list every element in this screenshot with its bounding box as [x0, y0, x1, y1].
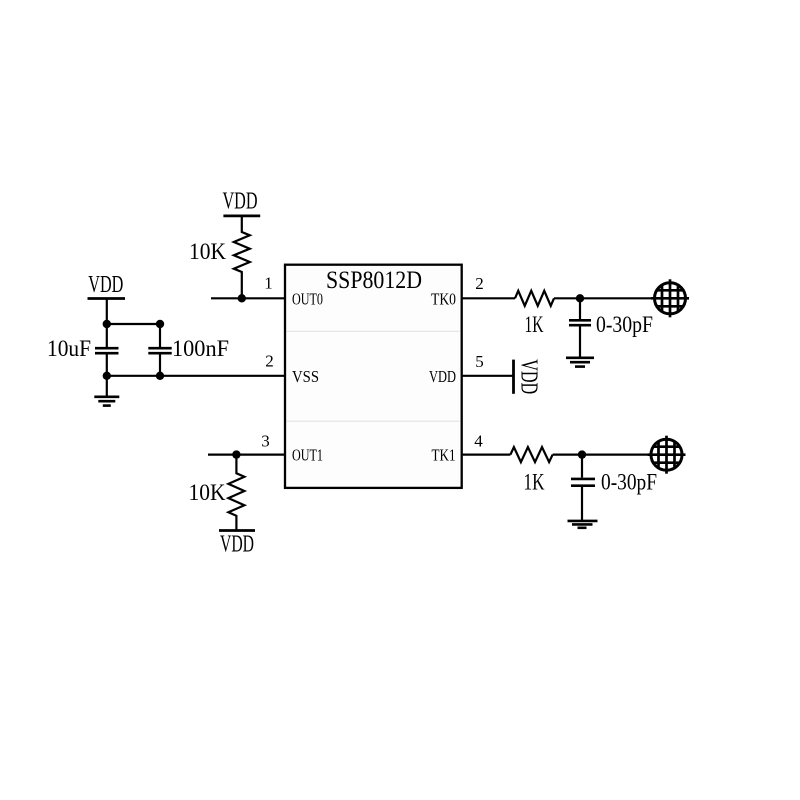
resistor 10K bottom [228, 455, 244, 531]
ground bottom right [568, 521, 598, 528]
junction node TK0 [576, 294, 584, 302]
wire pin4 TK1 right [461, 454, 510, 456]
svg-text:TK1: TK1 [432, 446, 456, 465]
svg-text:10uF: 10uF [47, 336, 91, 361]
power VDD bottom bar [219, 529, 255, 532]
power VDD left bar [88, 297, 126, 300]
wire resistor to touchpad top [554, 297, 655, 299]
capacitor 100nF [148, 324, 171, 376]
junction node pin3 [232, 450, 240, 458]
junction node pin1 [238, 294, 246, 302]
junction node TK1 [578, 450, 586, 458]
IC U1 section divider line 2 [287, 420, 460, 422]
power VDD top bar [223, 214, 260, 217]
junction node cap2 top [156, 320, 164, 328]
svg-text:VDD: VDD [516, 359, 542, 394]
svg-text:TK0: TK0 [431, 290, 456, 309]
wire ground left down [106, 376, 108, 396]
svg-text:4: 4 [474, 432, 483, 451]
resistor 1K bottom [510, 447, 552, 462]
svg-text:3: 3 [261, 432, 270, 451]
svg-text:0-30pF: 0-30pF [601, 469, 657, 494]
capacitor 10uF [95, 324, 119, 376]
IC U1 section divider line 1 [287, 330, 460, 332]
svg-text:5: 5 [475, 352, 484, 371]
junction node cap2 bottom [156, 372, 164, 380]
ground left [94, 397, 119, 406]
wire pin2 TK0 right [461, 297, 515, 299]
wire top rail caps [107, 323, 160, 325]
svg-text:1: 1 [264, 274, 273, 293]
svg-text:0-30pF: 0-30pF [596, 312, 653, 337]
svg-text:1K: 1K [525, 312, 544, 337]
ground top right [566, 358, 594, 367]
svg-text:VDD: VDD [223, 189, 258, 215]
wire VSS rail [107, 375, 285, 377]
svg-text:2: 2 [265, 352, 274, 371]
svg-text:OUT0: OUT0 [292, 290, 323, 309]
svg-text:2: 2 [475, 274, 484, 293]
IC U1 SSP8012D body [285, 265, 462, 488]
touchpad TP0 [651, 279, 689, 317]
capacitor 0-30pF bottom [571, 455, 595, 520]
resistor 1K top [515, 291, 554, 306]
junction node cap1 bottom [103, 372, 111, 380]
svg-text:10K: 10K [189, 480, 226, 505]
touchpad TP1 [648, 436, 686, 474]
wire pin3 OUT1 left [208, 454, 285, 456]
svg-text:1K: 1K [524, 469, 545, 494]
svg-text:VDD: VDD [88, 272, 123, 298]
svg-text:VSS: VSS [292, 367, 319, 386]
wire VDD left down [106, 299, 108, 325]
svg-text:VDD: VDD [429, 367, 456, 386]
wire resistor to touchpad bottom [553, 454, 652, 456]
wire pin5 VDD right [461, 375, 514, 377]
wire pin1 OUT0 left [211, 297, 285, 299]
resistor 10K top [234, 216, 250, 298]
power VDD right bar [512, 360, 515, 394]
capacitor 0-30pF top [569, 298, 591, 356]
svg-text:OUT1: OUT1 [292, 446, 323, 465]
svg-text:10K: 10K [189, 239, 226, 264]
svg-text:SSP8012D: SSP8012D [326, 267, 422, 294]
svg-text:100nF: 100nF [172, 336, 229, 361]
junction node cap1 top [103, 320, 111, 328]
svg-text:VDD: VDD [220, 532, 254, 558]
